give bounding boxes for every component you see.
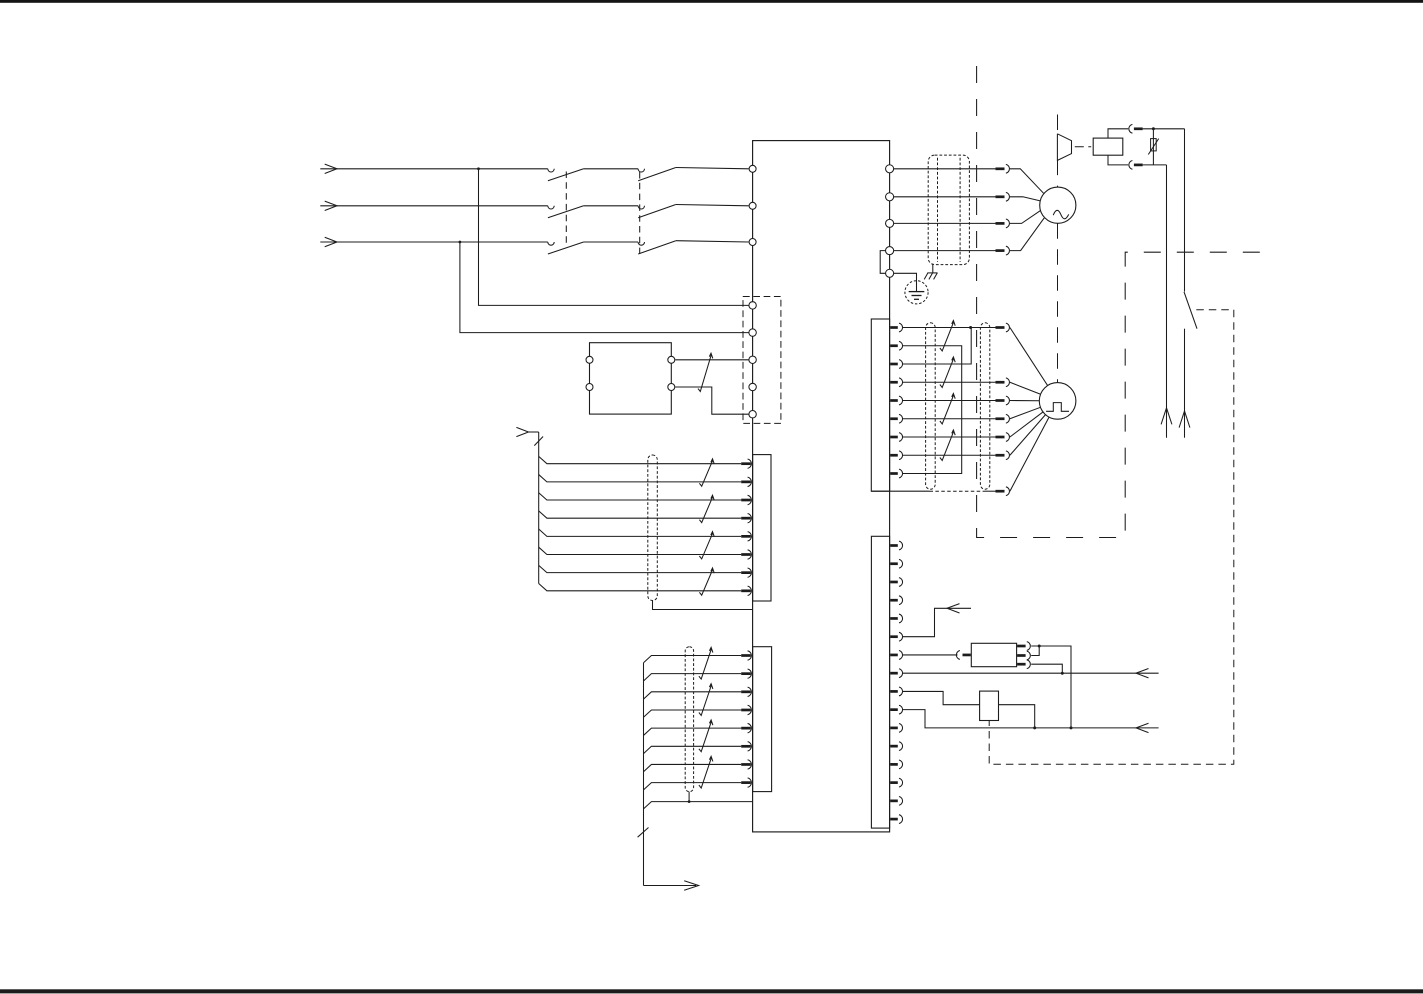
filter FL1 pin left-2	[586, 384, 593, 391]
varistor junction	[1152, 127, 1155, 130]
contactor K1 pole 2 blade	[638, 205, 676, 218]
harness H1 branch 6	[539, 547, 742, 554]
connector CN2 pin 8 contact	[890, 672, 898, 675]
connector CN-A pin 5	[749, 411, 756, 418]
servo motor M1 sine symbol	[1053, 210, 1069, 219]
contactor K1 pole 2 contact	[638, 206, 644, 209]
control box motor pin M5	[886, 269, 894, 277]
connector CN1 pin 6 contact	[890, 417, 898, 420]
filter FL1 pin left-1	[586, 356, 593, 363]
wire SW1 pole 3 to SW2	[584, 241, 639, 243]
connector CN1 pin 8 contact	[890, 454, 898, 457]
stepper motor M2 pulse symbol	[1046, 403, 1069, 412]
connector CN1 body	[871, 319, 889, 491]
connector CN4 pin 1 contact	[741, 654, 751, 657]
wire motor phase 4 from pin M4	[894, 250, 996, 252]
connector CN2 pin 14 contact	[890, 781, 898, 784]
input power line L2	[320, 205, 548, 207]
machine link (dashed) motor M1 to motor M2	[1057, 223, 1059, 382]
harness H2 branch 8	[644, 783, 742, 790]
cable pair marker 3 (stepper)	[940, 394, 955, 424]
wire CN1-2 to CN1-9 link	[903, 346, 962, 474]
shield drain wire	[932, 264, 934, 273]
wire fan to stepper motor at y=491.2	[1010, 417, 1049, 491]
wire synchronizer top lead	[1108, 129, 1128, 138]
connector CN4 pin 6 contact	[741, 745, 751, 748]
connector CN3 pin 3 contact	[741, 499, 751, 502]
connector CN2 pin 10 contact	[890, 708, 898, 711]
cable pair marker 4 (H1)	[699, 568, 714, 595]
connector CN2 pin 12 contact	[890, 745, 898, 748]
harness H1 branch 5	[539, 529, 742, 536]
auxiliary connector CN-A (dashed outline)	[743, 297, 781, 424]
contact on stepper wire 1	[996, 326, 1005, 329]
control box power input pin P1	[749, 165, 756, 172]
wire synchronizer bottom lead	[1108, 155, 1128, 165]
dashed link horn to box	[1075, 146, 1091, 148]
harness H2 branch 1	[644, 656, 742, 663]
wire motor phase 2 fan-in to motor	[1010, 197, 1040, 201]
wire CN2-9 to solenoid SOL2	[903, 691, 980, 704]
harness H2 output arrow	[684, 881, 698, 890]
connector CN3 pin 7 contact	[741, 571, 751, 574]
contact on stepper wire 7	[996, 436, 1005, 439]
cable pair marker 1 (H1)	[699, 459, 714, 486]
connector CN4 pin 3 contact	[741, 690, 751, 693]
junction feedback drop	[1070, 726, 1073, 729]
harness H1 input arrow	[516, 427, 528, 436]
cable shield 3 (dashed capsule)	[648, 455, 658, 601]
wire CN2-8 signal	[903, 672, 1159, 674]
connector CN4 pin 5 contact	[741, 727, 751, 730]
switch SW1 pole 2 contact	[548, 206, 554, 209]
cable marker on H1 trunk	[534, 437, 543, 446]
control box (main PCB)	[753, 141, 890, 832]
harness H2 output wire	[644, 885, 697, 887]
wire motor phase 2 from pin M2	[894, 196, 996, 198]
protective earth bars	[909, 291, 925, 293]
connector CN1 pin 9 contact	[890, 472, 898, 475]
wire K1 pole 2 to control box pin	[676, 205, 749, 206]
solenoid SOL1 body	[971, 643, 1016, 666]
harness H1 branch 7	[539, 565, 742, 572]
input arrow L3	[325, 237, 337, 246]
connector CN2 body	[871, 536, 889, 828]
cable pair marker 2 (H2)	[699, 684, 713, 716]
switch SW1 pole 2 blade	[548, 206, 584, 218]
harness H2 branch 2	[644, 674, 742, 681]
connector CN1 pin 1 contact	[890, 326, 898, 329]
wire drop A (to machine head)	[1166, 165, 1168, 438]
wire CN1-5 to motor contact	[903, 400, 996, 402]
junction SOL1 A/B	[1038, 645, 1041, 648]
wire SOL2 out	[999, 705, 1035, 728]
contactor K1 pole 3 blade	[638, 241, 676, 254]
connector CN3 pin 2 contact	[741, 481, 751, 484]
top border bar	[0, 0, 1423, 3]
servo motor M1 (AC)	[1040, 187, 1076, 223]
jumper loop pin M4 to pin M5	[880, 251, 885, 274]
shielded cable (outer shield, dashed)	[928, 155, 969, 265]
solenoid SOL1 plug contact	[956, 651, 960, 660]
wire CN2-7 to solenoid	[903, 654, 958, 656]
connector CN1 pin 3 contact	[890, 363, 898, 366]
wire bottom lead to drop	[1143, 164, 1167, 166]
harness H1 trunk	[538, 432, 540, 584]
solenoid SOL2 body	[980, 691, 999, 720]
connector CN2 pin 6 contact	[890, 635, 898, 638]
harness H2 trunk	[643, 663, 645, 886]
junction SOL2 out	[1033, 726, 1036, 729]
filter FL1 pin right-2	[668, 384, 675, 391]
switch SW1 pole 1 blade	[548, 169, 584, 181]
shield 4 drain wire	[688, 792, 690, 802]
wire CN1-6 to motor contact	[903, 418, 996, 420]
shield wire to motor contact	[985, 490, 996, 492]
contactor K1 mechanical link (dashed)	[639, 172, 641, 254]
optional device boundary (fine dash)	[989, 310, 1234, 765]
wire K1 pole 3 to control box pin	[676, 241, 749, 242]
input arrow L2	[325, 201, 337, 210]
bottom border bar	[0, 989, 1423, 993]
harness H1 branch 3	[539, 493, 742, 500]
wire pin M5 to protective earth	[894, 273, 917, 291]
connector CN2 pin 11 contact	[890, 727, 898, 730]
connector CN2 pin 7 contact	[890, 654, 898, 657]
shielded cable inner wall right	[959, 158, 961, 262]
control box motor pin M1	[886, 165, 894, 173]
cable pair marker 1 (stepper)	[940, 321, 955, 351]
varistor RV1 arrow	[1148, 139, 1158, 155]
wire CN1-4 to motor contact	[903, 381, 996, 383]
wire CN1-3 link up to CN1-1	[903, 328, 972, 365]
connector contact on motor phase 2	[996, 195, 1005, 198]
connector contact on motor phase 4	[996, 249, 1005, 252]
contact on stepper wire 6	[996, 417, 1005, 420]
arrow on CN2-6 signal	[947, 604, 960, 613]
wire motor phase 1 fan-in to motor	[1010, 169, 1044, 194]
wire fan to stepper motor at y=418.75	[1010, 407, 1041, 418]
wire tap from L3 down to connector pin	[460, 242, 749, 333]
harness H2 shield branch	[644, 802, 753, 809]
connector CN1 pin 2 contact	[890, 344, 898, 347]
connector CN-A pin 3	[749, 356, 756, 363]
input power line L3	[320, 241, 548, 243]
connector CN3 pin 8 contact	[741, 589, 751, 592]
contact on stepper wire 8	[996, 454, 1005, 457]
junction SOL1 C	[1061, 672, 1064, 675]
wire CN2-10 signal	[903, 710, 1159, 728]
wire SOL1 A jumper B	[1031, 646, 1039, 656]
connector CN4 body	[753, 647, 772, 792]
switch SW1 pole 3 contact	[548, 242, 554, 245]
switch SW1 mechanical link (dashed)	[565, 172, 567, 248]
switch blade on drop B	[1184, 292, 1197, 329]
control box motor pin M3	[886, 219, 894, 227]
harness H1 lead-in wire	[529, 431, 539, 433]
cable pair marker 2 (stepper)	[940, 357, 955, 387]
wire drop B lower	[1184, 329, 1186, 438]
connector CN1 pin 5 contact	[890, 399, 898, 402]
wire drop B upper	[1184, 129, 1186, 292]
shielded cable inner wall left	[937, 158, 939, 262]
shield wire from CN1 bottom	[871, 490, 929, 492]
connector CN4 pin 4 contact	[741, 709, 751, 712]
connector CN2 pin 4 contact	[890, 599, 898, 602]
varistor branch wire	[1152, 129, 1154, 165]
connector CN-A pin 2	[749, 329, 756, 336]
contactor K1 pole 3 contact	[638, 242, 644, 245]
connector CN-A pin 1	[749, 302, 756, 309]
wire fan to stepper motor at y=437.0	[1010, 412, 1043, 437]
synchronizer box	[1093, 138, 1123, 155]
cable marker on FL1 wires	[698, 353, 713, 391]
cable shield 4 (dashed capsule)	[685, 647, 693, 792]
machine boundary (long dash)	[977, 66, 1275, 538]
harness H2 branch 5	[644, 728, 742, 735]
connector CN3 pin 6 contact	[741, 553, 751, 556]
connector CN1 pin 4 contact	[890, 381, 898, 384]
contact on stepper wire 5	[996, 399, 1005, 402]
solenoid SOL1 pin C contact	[1017, 663, 1026, 666]
arrow on CN2-10 signal	[1136, 723, 1149, 732]
connector CN2 pin 9 contact	[890, 690, 898, 693]
connector CN1 pin 7 contact	[890, 436, 898, 439]
wire CN1-1 to junction	[903, 327, 972, 329]
junction CN1-1/CN1-3	[969, 326, 972, 329]
connector CN3 pin 4 contact	[741, 517, 751, 520]
wire SOL1 A to feedback drop	[1031, 646, 1071, 728]
connector CN-A pin 4	[749, 383, 756, 390]
chassis ground (frame) symbol	[927, 272, 937, 274]
wire CN2-6 signal	[903, 608, 972, 636]
wire FL1 right-1 to CN-A pin3	[675, 359, 749, 361]
filter box FL1	[590, 343, 672, 414]
contact on shield wire	[996, 490, 1005, 493]
contactor K1 pole 1 blade	[638, 168, 676, 181]
cable shield 2 (dashed capsule)	[980, 323, 989, 489]
wire fan to stepper motor at y=455.25	[1010, 415, 1046, 456]
wire K1 pole 1 to control box pin	[676, 168, 749, 169]
wire fan to stepper motor at y=400.5	[1010, 400, 1039, 402]
harness H1 branch 1	[539, 456, 742, 463]
control box motor pin M2	[886, 193, 894, 201]
wire SOL1 C to CN2-8 line	[1031, 664, 1062, 673]
cable marker on H2 trunk	[638, 828, 649, 838]
wire top lead to right drop	[1143, 128, 1185, 130]
input arrow L1	[325, 164, 337, 173]
filter FL1 pin right-1	[668, 356, 675, 363]
wire CN1-1 through shield to motor contact	[971, 327, 995, 329]
connector CN4 pin 7 contact	[741, 763, 751, 766]
connector CN3 body	[753, 455, 771, 601]
wire tap from L1 down to connector pin	[479, 169, 749, 306]
wire motor phase 1 from pin M1	[894, 168, 996, 170]
wire fan to stepper motor at y=327.5	[1010, 328, 1048, 386]
wire motor phase 4 fan-in to motor	[1010, 218, 1044, 251]
switch SW1 pole 3 blade	[548, 242, 584, 254]
harness H1 branch 8	[539, 584, 742, 591]
wire motor phase 3 from pin M3	[894, 222, 996, 224]
harness H1 branch 2	[539, 475, 742, 482]
harness H2 branch 6	[644, 746, 742, 753]
contactor K1 pole 1 contact	[638, 169, 644, 172]
cable pair marker 4 (stepper)	[940, 430, 955, 460]
harness H2 branch 7	[644, 764, 742, 771]
connector CN2 pin 15 contact	[890, 800, 898, 803]
contact on stepper wire 4	[996, 381, 1005, 384]
machine link (dashed) horn to motor M1	[1057, 160, 1059, 188]
connector contact on motor phase 1	[996, 167, 1005, 170]
connector contact on motor phase 3	[996, 222, 1005, 225]
junction on L1	[477, 167, 480, 170]
wire SW1 pole 1 to SW2	[584, 168, 639, 170]
connector CN2 pin 1 contact	[890, 544, 898, 547]
connector CN2 pin 13 contact	[890, 763, 898, 766]
connector CN2 pin 2 contact	[890, 562, 898, 565]
shield 3 drain wire	[653, 601, 753, 610]
connector CN3 pin 5 contact	[741, 535, 751, 538]
connector CN2 pin 3 contact	[890, 581, 898, 584]
wire CN1-8 to motor contact	[903, 454, 996, 456]
harness H2 branch 3	[644, 692, 742, 699]
cable pair marker 4 (H2)	[699, 756, 713, 788]
junction shield 4 drain	[688, 800, 691, 803]
cable pair marker 1 (H2)	[699, 647, 713, 679]
wire motor phase 3 fan-in to motor	[1010, 210, 1041, 223]
input power line L1	[320, 168, 548, 170]
varistor RV1	[1151, 139, 1157, 151]
harness H1 branch 4	[539, 511, 742, 518]
cable pair marker 2 (H1)	[699, 495, 714, 522]
wire SW1 pole 2 to SW2	[584, 205, 639, 207]
control box power input pin P2	[749, 202, 756, 209]
solenoid SOL1 pin B contact	[1017, 654, 1026, 657]
connector CN4 pin 2 contact	[741, 672, 751, 675]
arrow on drop B	[1179, 411, 1190, 428]
stepper motor M2	[1039, 383, 1076, 420]
connector CN3 pin 1 contact	[741, 462, 751, 465]
connector CN2 pin 5 contact	[890, 617, 898, 620]
wire CN1-7 to motor contact	[903, 436, 996, 438]
solenoid SOL1 pin A contact	[1017, 645, 1026, 648]
arrow on CN2-8 signal	[1136, 668, 1149, 677]
control box motor pin M4	[886, 247, 894, 255]
cable pair marker 3 (H1)	[699, 532, 714, 559]
position detector horn symbol	[1057, 134, 1071, 161]
machine link (dashed) above horn	[1057, 115, 1059, 133]
cable pair marker 3 (H2)	[699, 720, 713, 752]
harness H2 branch 4	[644, 710, 742, 717]
switch SW1 pole 1 contact	[548, 169, 554, 172]
connector CN4 pin 8 contact	[741, 781, 751, 784]
arrow on drop A	[1161, 408, 1172, 425]
control box power input pin P3	[749, 239, 756, 246]
shield link (dashed) between shields	[930, 490, 985, 492]
junction on L3	[459, 241, 462, 244]
connector contact on top lead	[1129, 124, 1133, 133]
connector CN2 pin 16 contact	[890, 818, 898, 821]
wire FL1 right-2 to CN-A pin5	[675, 387, 749, 414]
wire fan to stepper motor at y=382.25	[1010, 382, 1041, 394]
connector contact on bottom lead	[1129, 161, 1133, 170]
cable shield 1 (dashed capsule)	[926, 323, 936, 489]
protective earth symbol (dashed circle)	[905, 281, 928, 304]
